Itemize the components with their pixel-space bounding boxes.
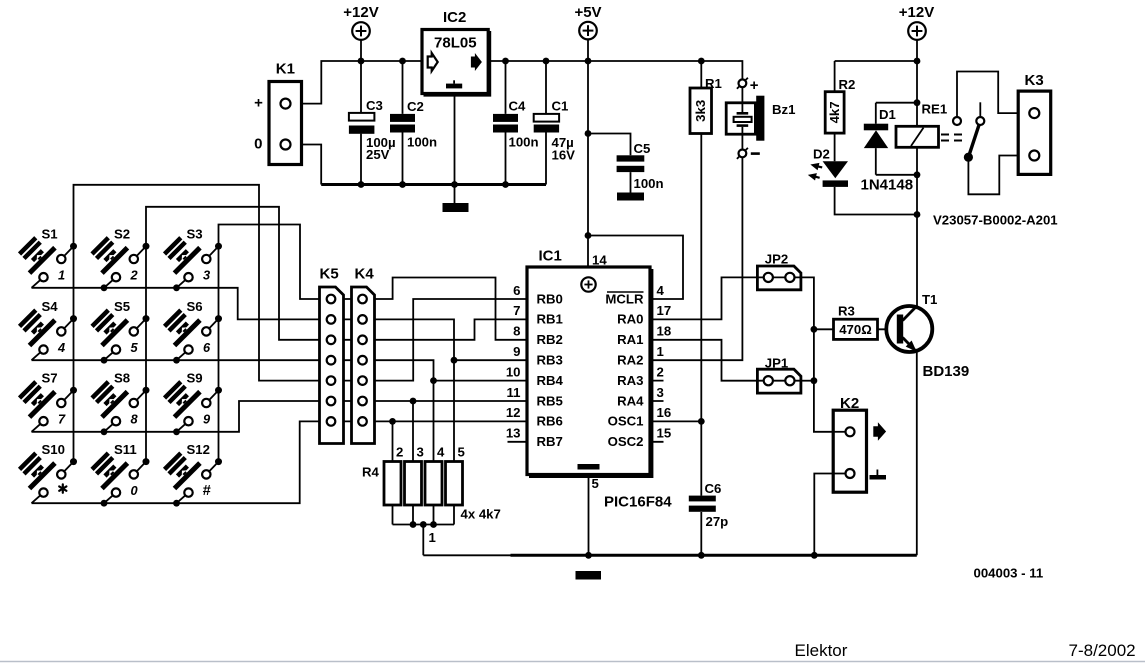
svg-text:11: 11: [507, 385, 521, 400]
svg-text:1N4148: 1N4148: [861, 177, 914, 194]
svg-text:8: 8: [131, 412, 139, 427]
svg-text:S6: S6: [187, 299, 203, 314]
svg-text:S8: S8: [114, 371, 130, 386]
svg-text:K2: K2: [840, 395, 859, 412]
svg-text:OSC2: OSC2: [608, 434, 644, 449]
svg-text:1: 1: [58, 268, 65, 283]
svg-text:5: 5: [592, 476, 599, 491]
svg-text:S5: S5: [114, 299, 130, 314]
svg-text:RB5: RB5: [537, 393, 563, 408]
svg-text:7: 7: [58, 412, 66, 427]
svg-text:R2: R2: [839, 77, 856, 92]
svg-text:16V: 16V: [552, 147, 576, 162]
svg-text:14: 14: [592, 253, 607, 268]
svg-text:100n: 100n: [634, 176, 664, 191]
svg-text:4x 4k7: 4x 4k7: [461, 507, 501, 522]
svg-text:4: 4: [657, 283, 665, 298]
svg-text:S11: S11: [114, 442, 137, 457]
svg-text:C4: C4: [509, 98, 527, 113]
svg-text:R4: R4: [362, 465, 380, 480]
svg-text:15: 15: [657, 426, 672, 441]
svg-text:PIC16F84: PIC16F84: [604, 494, 672, 511]
svg-text:S10: S10: [42, 442, 65, 457]
svg-text:Elektor: Elektor: [795, 641, 848, 660]
svg-text:4: 4: [57, 340, 65, 355]
svg-text:S4: S4: [42, 299, 59, 314]
svg-text:RA1: RA1: [617, 332, 643, 347]
svg-text:5: 5: [131, 340, 139, 355]
svg-text:C2: C2: [407, 99, 424, 114]
svg-text:0: 0: [254, 136, 262, 153]
svg-text:R3: R3: [838, 304, 855, 319]
svg-text:3: 3: [417, 445, 424, 460]
svg-text:1: 1: [657, 344, 664, 359]
svg-text:OSC1: OSC1: [608, 414, 644, 429]
svg-text:27p: 27p: [706, 514, 729, 529]
svg-text:RE1: RE1: [922, 102, 948, 117]
svg-text:10: 10: [506, 364, 521, 379]
svg-text:RB0: RB0: [537, 291, 563, 306]
svg-text:13: 13: [506, 426, 521, 441]
svg-text:+12V: +12V: [343, 4, 378, 21]
svg-text:Bz1: Bz1: [772, 102, 795, 117]
svg-text:2: 2: [396, 445, 403, 460]
svg-text:9: 9: [513, 344, 520, 359]
svg-text:25V: 25V: [366, 147, 390, 162]
svg-text:470Ω: 470Ω: [839, 322, 872, 337]
svg-text:3k3: 3k3: [693, 100, 708, 122]
svg-text:+5V: +5V: [574, 4, 601, 21]
svg-text:RB2: RB2: [537, 332, 563, 347]
svg-text:9: 9: [203, 412, 211, 427]
svg-text:18: 18: [657, 324, 672, 339]
svg-text:100n: 100n: [509, 134, 539, 149]
svg-text:C5: C5: [634, 141, 651, 156]
svg-text:+: +: [750, 77, 759, 94]
svg-text:RA2: RA2: [617, 353, 643, 368]
svg-text:JP1: JP1: [765, 356, 788, 371]
svg-text:S7: S7: [42, 371, 58, 386]
svg-text:+12V: +12V: [899, 4, 934, 21]
svg-text:T1: T1: [922, 292, 937, 307]
svg-text:S1: S1: [42, 227, 58, 242]
svg-text:4: 4: [437, 445, 445, 460]
svg-text:RB3: RB3: [537, 353, 563, 368]
svg-text:3: 3: [203, 268, 210, 283]
svg-text:JP2: JP2: [765, 252, 788, 267]
svg-text:5: 5: [458, 445, 465, 460]
svg-text:D2: D2: [813, 147, 830, 162]
svg-text:K4: K4: [355, 266, 375, 283]
svg-text:RA4: RA4: [617, 393, 644, 408]
svg-text:S9: S9: [187, 371, 203, 386]
svg-text:D1: D1: [879, 107, 896, 122]
svg-text:12: 12: [506, 405, 521, 420]
svg-text:IC1: IC1: [539, 248, 562, 265]
svg-text:K3: K3: [1025, 72, 1044, 89]
svg-text:2: 2: [657, 364, 664, 379]
svg-text:C1: C1: [552, 98, 569, 113]
svg-text:V23057-B0002-A201: V23057-B0002-A201: [933, 213, 1058, 228]
svg-text:7-8/2002: 7-8/2002: [1069, 641, 1136, 660]
svg-text:1: 1: [429, 530, 436, 545]
svg-text:MCLR: MCLR: [605, 291, 644, 306]
svg-text:78L05: 78L05: [434, 35, 477, 52]
svg-text:RA3: RA3: [617, 373, 643, 388]
svg-text:6: 6: [513, 283, 520, 298]
svg-text:S2: S2: [114, 227, 130, 242]
svg-text:004003 - 11: 004003 - 11: [974, 566, 1044, 581]
svg-text:IC2: IC2: [443, 9, 466, 26]
svg-text:0: 0: [131, 483, 138, 498]
svg-text:RA0: RA0: [617, 312, 643, 327]
svg-text:RB1: RB1: [537, 312, 563, 327]
svg-text:BD139: BD139: [923, 363, 970, 380]
svg-text:RB7: RB7: [537, 434, 563, 449]
svg-text:S12: S12: [187, 442, 210, 457]
svg-text:RB6: RB6: [537, 414, 563, 429]
svg-text:RB4: RB4: [537, 373, 564, 388]
svg-text:16: 16: [657, 405, 672, 420]
svg-text:#: #: [203, 483, 212, 499]
svg-text:S3: S3: [187, 227, 203, 242]
svg-text:8: 8: [513, 324, 520, 339]
svg-text:17: 17: [657, 303, 672, 318]
svg-text:100n: 100n: [407, 134, 437, 149]
svg-text:7: 7: [513, 303, 520, 318]
svg-text:3: 3: [657, 385, 664, 400]
svg-text:C3: C3: [366, 98, 383, 113]
svg-text:K5: K5: [320, 266, 339, 283]
svg-text:C6: C6: [705, 481, 722, 496]
svg-text:+: +: [254, 95, 263, 112]
svg-text:6: 6: [203, 340, 211, 355]
svg-text:4k7: 4k7: [827, 101, 842, 123]
svg-text:2: 2: [130, 268, 138, 283]
svg-text:R1: R1: [705, 76, 722, 91]
svg-text:K1: K1: [276, 61, 295, 78]
